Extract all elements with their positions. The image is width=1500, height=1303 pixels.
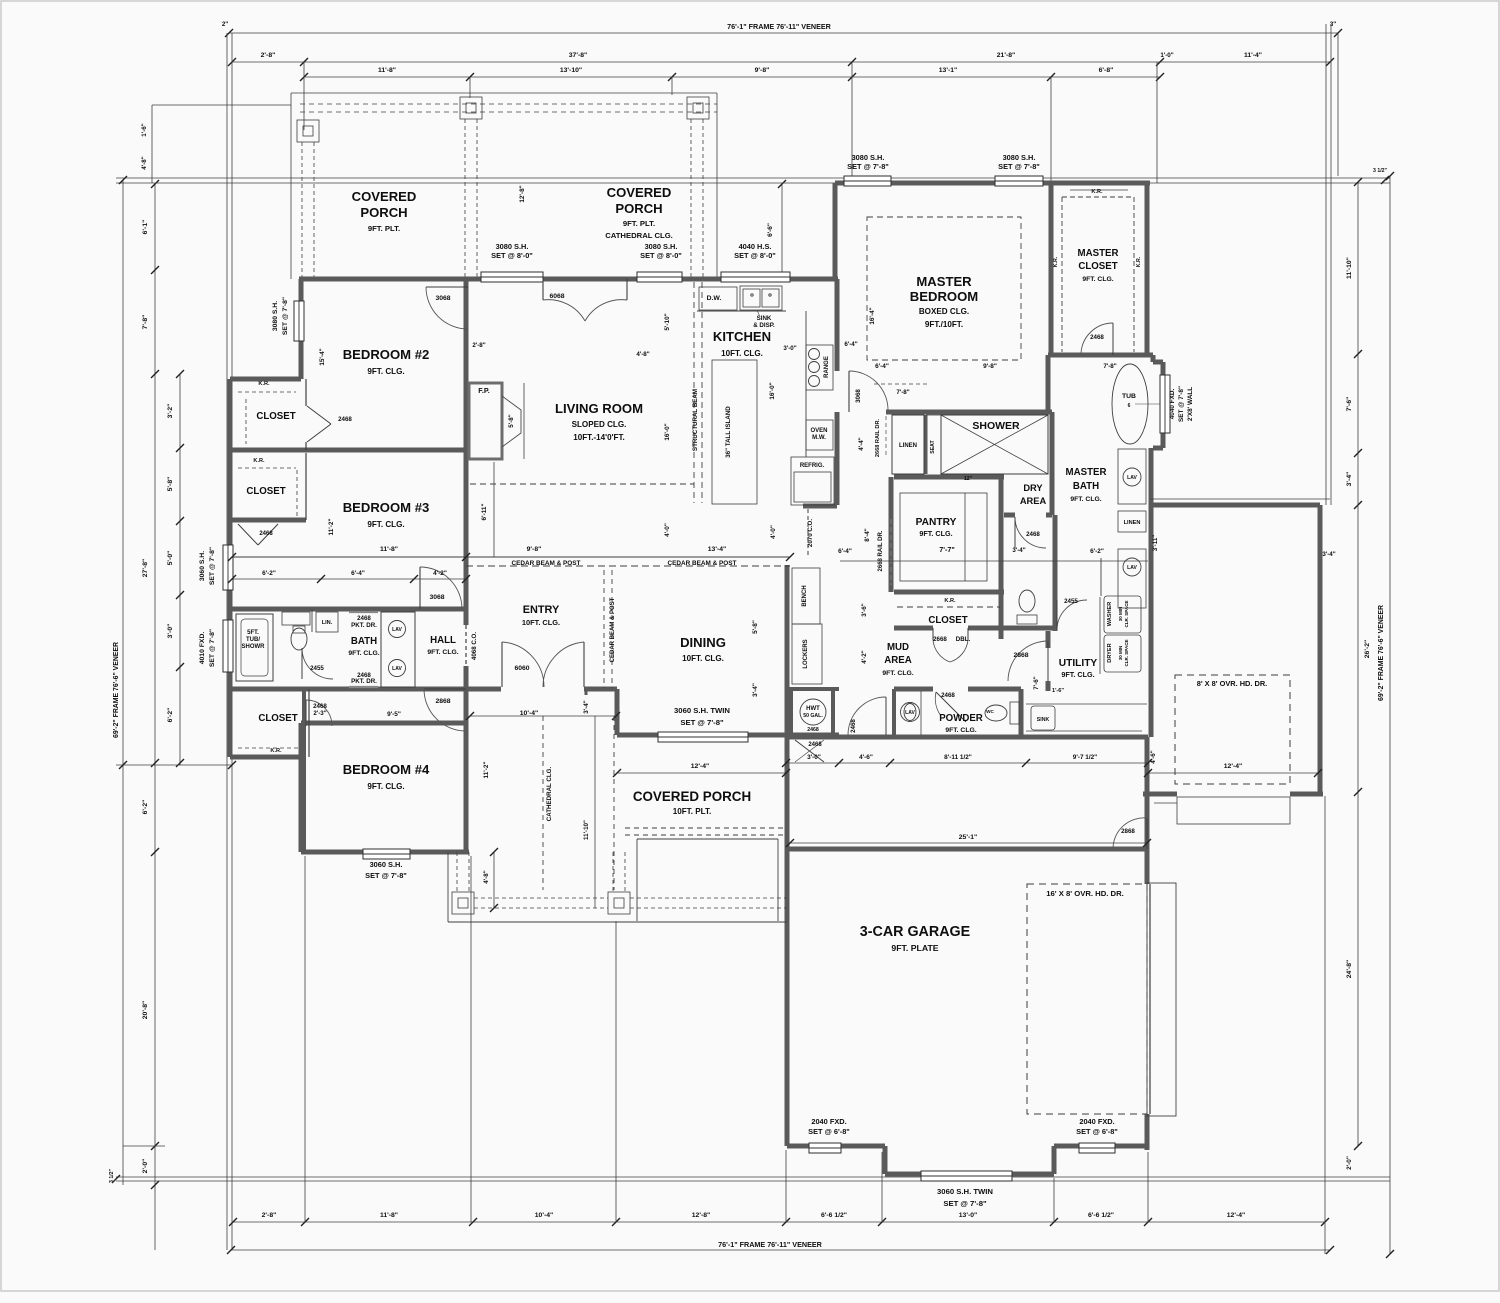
svg-text:ENTRY: ENTRY <box>523 604 560 616</box>
window 3080 SH bedroom2 porch <box>481 272 543 282</box>
svg-text:2'X8' WALL: 2'X8' WALL <box>1187 387 1194 421</box>
closet1 rod dashed <box>238 391 296 393</box>
svg-text:3'-11": 3'-11" <box>1152 535 1159 552</box>
svg-text:DBL.: DBL. <box>956 636 971 643</box>
svg-text:DRYER: DRYER <box>1107 643 1113 662</box>
svg-text:10FT. CLG.: 10FT. CLG. <box>682 654 724 663</box>
svg-text:REFRIG.: REFRIG. <box>800 463 825 469</box>
svg-text:CEDAR BEAM & POST: CEDAR BEAM & POST <box>610 597 616 662</box>
svg-text:MASTER: MASTER <box>916 274 972 289</box>
closet2 rod dashed <box>238 467 296 469</box>
wall: hwt south <box>786 733 839 738</box>
svg-text:2468: 2468 <box>259 531 273 537</box>
svg-text:BOXED CLG.: BOXED CLG. <box>919 307 969 316</box>
svg-text:LAV: LAV <box>1127 565 1137 571</box>
svg-text:5FT.: 5FT. <box>247 630 259 636</box>
door 6060 entry french doors <box>501 642 503 687</box>
linen closet master <box>1118 511 1146 532</box>
ext x1148 bottom <box>1147 1152 1149 1222</box>
svg-text:F.P.: F.P. <box>478 386 489 395</box>
window 2040 FXD garage left <box>809 1143 841 1153</box>
patio roof line <box>1150 498 1330 500</box>
svg-text:LAV: LAV <box>392 627 402 633</box>
svg-text:11'-2": 11'-2" <box>328 519 335 536</box>
mud closet double doors 2668 <box>932 628 934 640</box>
wall: bath/hall south <box>230 687 466 692</box>
bath tub 5ft <box>236 614 273 681</box>
svg-text:SET @ 6'-8": SET @ 6'-8" <box>808 1127 850 1136</box>
svg-text:3'-4": 3'-4" <box>1346 472 1353 487</box>
exterior wall: garage south right <box>1054 1144 1147 1149</box>
svg-text:K.R.: K.R. <box>944 598 956 604</box>
line: wd nook west <box>1100 558 1102 596</box>
svg-text:DRY: DRY <box>1023 483 1043 493</box>
svg-text:6'-6 1/2": 6'-6 1/2" <box>1088 1212 1114 1219</box>
porch beam dashed s1 <box>474 897 608 899</box>
master lav 2 <box>1118 549 1146 608</box>
svg-text:6: 6 <box>1128 403 1131 409</box>
garage door panel <box>1147 883 1176 1116</box>
exterior wall: closet3 west <box>228 689 233 757</box>
svg-text:CLR. SPACE: CLR. SPACE <box>1124 640 1129 667</box>
ext line x304 <box>303 62 305 130</box>
svg-text:6'-11": 6'-11" <box>481 504 488 521</box>
svg-text:SLOPED CLG.: SLOPED CLG. <box>572 420 627 429</box>
left dim line 2 <box>154 183 156 1250</box>
svg-text:3080 S.H.: 3080 S.H. <box>496 242 529 251</box>
wall: closet2 south <box>230 518 306 523</box>
wall: pantry south <box>894 590 1004 595</box>
svg-text:4068 C.O.: 4068 C.O. <box>471 632 478 660</box>
wall: utility west stub b <box>1046 681 1051 691</box>
svg-text:11'-8": 11'-8" <box>378 67 396 74</box>
svg-text:5'-10": 5'-10" <box>664 313 671 330</box>
dim line y773 <box>617 772 786 774</box>
svg-text:4010 FXD.: 4010 FXD. <box>199 632 206 665</box>
door mud south exterior <box>885 697 887 735</box>
svg-text:6'-2": 6'-2" <box>167 708 174 723</box>
bottom dim line <box>233 1221 1325 1223</box>
washer <box>1104 596 1141 633</box>
svg-text:20'-8": 20'-8" <box>142 1001 149 1019</box>
svg-text:3060 S.H.: 3060 S.H. <box>370 860 403 869</box>
svg-text:3080 S.H.: 3080 S.H. <box>1003 153 1036 162</box>
svg-text:2455: 2455 <box>310 665 324 672</box>
svg-text:6060: 6060 <box>514 665 529 672</box>
svg-text:AREA: AREA <box>1020 496 1047 506</box>
svg-text:SEAT: SEAT <box>930 439 936 453</box>
ext x616 bottom <box>615 921 617 1222</box>
porch beam dashed s4 <box>630 907 787 909</box>
svg-text:CLOSET: CLOSET <box>1078 261 1117 272</box>
porch post 1 <box>297 120 319 142</box>
svg-text:9FT. PLATE: 9FT. PLATE <box>891 943 938 953</box>
door utility to wc 2455 <box>1057 600 1087 630</box>
svg-text:5'-8": 5'-8" <box>752 620 759 634</box>
svg-text:BEDROOM: BEDROOM <box>910 289 978 304</box>
svg-text:10FT. CLG.: 10FT. CLG. <box>721 349 763 358</box>
svg-text:LAV: LAV <box>1127 475 1137 481</box>
lockers <box>792 624 822 684</box>
svg-text:SET @ 6'-8": SET @ 6'-8" <box>1076 1127 1118 1136</box>
sloped ceiling dashed <box>470 483 694 485</box>
window 4010 FXD bath west <box>223 620 233 672</box>
range counter edge <box>805 311 807 457</box>
svg-text:SET @ 7'-8": SET @ 7'-8" <box>680 718 724 727</box>
svg-text:6'-4": 6'-4" <box>351 570 365 577</box>
svg-text:2468: 2468 <box>807 727 819 733</box>
svg-text:9FT. CLG.: 9FT. CLG. <box>367 782 404 791</box>
svg-text:1'-6": 1'-6" <box>1052 688 1064 694</box>
svg-text:26'-2": 26'-2" <box>1364 640 1371 658</box>
horizontal veneer line y178 <box>116 177 1390 179</box>
wall: master bath west <box>1050 412 1055 515</box>
door mud to utility 2868 <box>1008 641 1048 681</box>
post3 drop dashed a <box>690 119 692 277</box>
bottom veneer line b <box>116 1180 1390 1182</box>
dim line 4-8 <box>493 852 495 908</box>
svg-text:2868: 2868 <box>1013 652 1028 659</box>
master boxed ceiling dashed <box>867 217 1021 360</box>
ext x471 bottom <box>470 856 472 1222</box>
svg-text:9FT. CLG.: 9FT. CLG. <box>945 727 976 734</box>
svg-text:2455: 2455 <box>1064 598 1078 605</box>
wd counter edge <box>1099 597 1101 674</box>
svg-text:6'-1": 6'-1" <box>142 220 149 235</box>
svg-text:SET @ 7'-8": SET @ 7'-8" <box>209 547 216 585</box>
svg-text:SET @ 8'-0": SET @ 8'-0" <box>491 251 533 260</box>
sink leader <box>757 310 760 317</box>
exterior wall: garage step left <box>883 1146 888 1174</box>
post1 drop dashed b <box>313 142 315 277</box>
door 3068 bedroom2 <box>426 286 468 288</box>
shower <box>941 415 1048 474</box>
wall: rear patio north <box>1153 503 1320 508</box>
svg-text:9FT. PLT.: 9FT. PLT. <box>368 224 400 233</box>
exterior wall: west closets/bath <box>228 379 233 689</box>
bath lav counter <box>381 612 415 687</box>
svg-text:6068: 6068 <box>549 293 564 300</box>
svg-text:76'-1" FRAME 76'-11" VENEER: 76'-1" FRAME 76'-11" VENEER <box>727 22 832 31</box>
kitchen sink <box>740 286 782 310</box>
porch roof overhang dashed <box>625 827 786 829</box>
svg-text:2468: 2468 <box>1090 334 1104 341</box>
svg-text:BENCH: BENCH <box>802 585 808 606</box>
svg-text:CATHEDRAL CLG.: CATHEDRAL CLG. <box>546 767 553 822</box>
svg-text:9FT. CLG.: 9FT. CLG. <box>348 650 379 657</box>
svg-text:6'-4": 6'-4" <box>875 363 889 370</box>
oven microwave <box>806 420 833 450</box>
svg-text:SHOWER: SHOWER <box>972 420 1020 432</box>
wall: closet3 east / bedroom4 <box>302 689 306 852</box>
right veneer ext b <box>1330 24 1332 505</box>
svg-text:16'-0": 16'-0" <box>664 423 671 440</box>
svg-text:BEDROOM #3: BEDROOM #3 <box>343 500 430 515</box>
wall: master bedroom south <box>886 410 1052 415</box>
svg-text:16' X 8' OVR. HD. DR.: 16' X 8' OVR. HD. DR. <box>1046 889 1124 898</box>
svg-text:COVERED: COVERED <box>352 189 417 204</box>
svg-text:2'-8": 2'-8" <box>472 342 485 349</box>
window 4040 HS kitchen <box>721 272 790 282</box>
svg-text:PKT. DR.: PKT. DR. <box>351 622 377 629</box>
svg-text:50 GAL.: 50 GAL. <box>803 713 823 719</box>
wall: hwt closet west <box>789 689 793 735</box>
window 3080 SH bedroom2 west <box>294 301 304 341</box>
closet3 walls <box>308 689 310 757</box>
wall: mud closet south a <box>894 626 933 631</box>
svg-text:16'-0": 16'-0" <box>769 382 776 399</box>
dishwasher D.W. <box>699 287 737 310</box>
svg-text:9FT. CLG.: 9FT. CLG. <box>367 520 404 529</box>
dim line row3 left <box>304 76 852 78</box>
ext x1325 bottom <box>1324 796 1326 1254</box>
svg-text:7'-6": 7'-6" <box>1033 676 1040 689</box>
ext line x1338 <box>1337 33 1339 176</box>
svg-text:SINK: SINK <box>1037 717 1050 723</box>
svg-text:SHOWR: SHOWR <box>242 644 266 650</box>
svg-text:2868: 2868 <box>1121 828 1135 835</box>
svg-text:K.R.: K.R. <box>270 748 282 754</box>
svg-text:11'-10": 11'-10" <box>583 820 590 840</box>
svg-text:SET @ 7'-8": SET @ 7'-8" <box>847 162 889 171</box>
left small dim y1146 <box>123 1145 165 1147</box>
svg-text:2668 RAIL DR.: 2668 RAIL DR. <box>875 418 881 457</box>
svg-text:1'-6": 1'-6" <box>141 123 148 136</box>
svg-text:25'-1": 25'-1" <box>959 834 977 841</box>
wall: bedroom3 east <box>464 450 469 609</box>
svg-text:13'-0": 13'-0" <box>959 1212 977 1219</box>
svg-text:3'-0": 3'-0" <box>807 754 821 761</box>
wall: dining west <box>615 689 620 735</box>
closet1 inner partition <box>305 379 307 406</box>
svg-text:11'-10": 11'-10" <box>1346 257 1353 279</box>
wc toilet master <box>1019 590 1035 612</box>
svg-text:7'-8": 7'-8" <box>1103 363 1116 370</box>
exterior wall: bedroom4 south <box>301 850 469 855</box>
wall: closet1 north <box>230 377 301 382</box>
svg-text:2": 2" <box>222 21 228 28</box>
svg-text:4040 H.S.: 4040 H.S. <box>739 242 772 251</box>
door kitchen to master vestibule <box>848 371 850 412</box>
right dim line lower <box>1357 505 1359 1146</box>
door 2455 bath inner <box>302 648 333 679</box>
wall: entry south east segment <box>584 687 617 692</box>
bench <box>792 568 820 624</box>
porch roof top edge <box>291 92 717 94</box>
svg-text:10FT. PLT.: 10FT. PLT. <box>673 807 712 816</box>
svg-text:9'-8": 9'-8" <box>755 67 770 74</box>
svg-text:3-CAR GARAGE: 3-CAR GARAGE <box>860 924 970 940</box>
wall: patio south west segment <box>1143 792 1177 797</box>
wall: bedroom2 east <box>464 279 469 450</box>
window 3060 SH bedroom3 west <box>223 545 233 590</box>
exterior wall: north main <box>299 277 838 282</box>
svg-text:MASTER: MASTER <box>1078 248 1119 259</box>
svg-text:STRUCTURAL BEAM: STRUCTURAL BEAM <box>692 389 699 451</box>
wall: powder north a <box>894 687 933 692</box>
svg-text:3060 S.H. TWIN: 3060 S.H. TWIN <box>937 1187 993 1196</box>
svg-text:SET @ 7'-8": SET @ 7'-8" <box>998 162 1040 171</box>
svg-text:POWDER: POWDER <box>939 713 983 724</box>
cased opening 4068 hall <box>465 625 467 666</box>
svg-text:3'-4": 3'-4" <box>583 700 590 713</box>
svg-text:69'-2" FRAME 76'-6" VENEER: 69'-2" FRAME 76'-6" VENEER <box>1378 605 1385 701</box>
exterior wall: dining south <box>617 733 786 738</box>
shower seat <box>926 414 941 416</box>
wall: powder east <box>1019 689 1024 737</box>
bath vanity counter <box>311 609 313 632</box>
svg-text:8'-4": 8'-4" <box>864 528 871 541</box>
svg-text:3060 S.H. TWIN: 3060 S.H. TWIN <box>674 706 730 715</box>
svg-text:CLR. SPACE: CLR. SPACE <box>1124 601 1129 628</box>
svg-text:76'-1" FRAME 76'-11" VENEER: 76'-1" FRAME 76'-11" VENEER <box>718 1240 823 1249</box>
svg-text:BATH: BATH <box>351 636 377 647</box>
wall: master closet west <box>1049 183 1054 355</box>
wall: kitchen east a <box>835 279 840 371</box>
svg-text:LOCKERS: LOCKERS <box>803 639 809 668</box>
horizontal frame line y183 <box>116 182 1390 184</box>
bath linen <box>316 612 338 632</box>
dim line y763 <box>786 762 1148 764</box>
door 3068 bedroom3 <box>419 567 421 609</box>
svg-text:2468: 2468 <box>850 719 857 733</box>
svg-text:4'-0": 4'-0" <box>770 525 777 539</box>
svg-text:CLOSET: CLOSET <box>928 615 967 626</box>
ext line x470 <box>469 77 471 98</box>
window 3060 SH bedroom4 <box>363 849 410 859</box>
window 3060 SH twin dining <box>658 732 748 742</box>
svg-text:3068: 3068 <box>435 295 450 302</box>
exterior wall: bedroom4 east <box>464 723 469 852</box>
svg-text:1'-0": 1'-0" <box>1160 52 1173 59</box>
svg-text:7'-7": 7'-7" <box>939 545 955 554</box>
svg-text:2040 FXD.: 2040 FXD. <box>1079 1117 1114 1126</box>
south porch slab outline <box>447 852 449 922</box>
south porch post 1 <box>452 892 474 914</box>
svg-text:5'-8": 5'-8" <box>167 477 174 492</box>
svg-text:27'-8": 27'-8" <box>142 559 149 577</box>
svg-text:OVEN: OVEN <box>810 428 827 434</box>
rear patio door slab <box>1177 797 1290 824</box>
fireplace hearth line <box>493 462 495 557</box>
svg-text:69'-2" FRAME 76'-6" VENEER: 69'-2" FRAME 76'-6" VENEER <box>113 642 120 738</box>
exterior wall: rear patio east <box>1318 505 1323 794</box>
svg-text:6'-6": 6'-6" <box>767 223 774 237</box>
ext line x852 <box>851 62 853 183</box>
ext x786 bottom <box>785 1150 787 1222</box>
utility sink <box>1026 703 1147 705</box>
svg-text:2468: 2468 <box>1026 531 1040 538</box>
svg-text:9'-8": 9'-8" <box>983 363 997 370</box>
wall: dry area south a <box>1004 513 1015 518</box>
post2 drop dashed b <box>476 119 478 277</box>
pantry rail door dashed <box>890 519 892 585</box>
window 3080 SH living <box>637 272 682 282</box>
svg-text:UTILITY: UTILITY <box>1059 658 1098 669</box>
closet1 bifold doors <box>307 406 331 424</box>
svg-text:CATHEDRAL CLG.: CATHEDRAL CLG. <box>605 231 673 240</box>
window 4040 FXD tub bay <box>1160 375 1170 433</box>
svg-text:BEDROOM #2: BEDROOM #2 <box>343 347 430 362</box>
left veneer ext line a <box>226 33 228 1250</box>
wall: entry south west segment <box>459 687 501 692</box>
svg-text:12'-4": 12'-4" <box>1227 1212 1245 1219</box>
window 2040 FXD garage right <box>1079 1143 1115 1153</box>
svg-text:WASHER: WASHER <box>1107 602 1113 627</box>
svg-text:CEDAR BEAM & POST: CEDAR BEAM & POST <box>512 560 581 567</box>
wall: hall east a <box>464 609 469 625</box>
svg-text:K.R.: K.R. <box>1053 256 1059 267</box>
svg-text:3'-4": 3'-4" <box>752 683 759 697</box>
powder lav <box>901 703 920 722</box>
wall: hwt closet north <box>786 687 839 691</box>
small dim line top left <box>152 104 291 106</box>
svg-text:3080 S.H.: 3080 S.H. <box>645 242 678 251</box>
svg-text:9FT. CLG.: 9FT. CLG. <box>882 670 913 677</box>
wall: powder west <box>892 689 896 737</box>
svg-text:12'-4": 12'-4" <box>691 763 709 770</box>
dim line y579 <box>232 578 466 580</box>
wall: hwt closet east <box>831 689 835 735</box>
fireplace F.P. <box>469 383 502 459</box>
svg-text:COVERED: COVERED <box>607 185 672 200</box>
closet2 inner partition <box>305 453 307 520</box>
svg-text:3 1/2": 3 1/2" <box>1373 168 1388 174</box>
powder toilet <box>985 705 1007 721</box>
exterior wall: west garage/mud <box>785 565 790 1146</box>
svg-text:15'-4": 15'-4" <box>319 348 326 365</box>
closet2 rod v <box>296 470 298 516</box>
wall: garage north <box>787 847 1148 852</box>
refrigerator <box>791 457 834 505</box>
svg-text:CLOSET: CLOSET <box>258 713 297 724</box>
svg-text:TUB: TUB <box>1122 393 1136 400</box>
ext line x1051 <box>1050 77 1052 183</box>
dim line row2 <box>232 61 1330 63</box>
svg-text:SET @ 8'-0": SET @ 8'-0" <box>734 251 776 260</box>
door hwt closet diagonal <box>795 740 824 762</box>
svg-text:LAV: LAV <box>905 710 915 716</box>
svg-text:D.W.: D.W. <box>707 295 722 302</box>
garage overhead door 16x8 dashed <box>1027 884 1147 1114</box>
svg-text:3060 S.H.: 3060 S.H. <box>199 551 206 581</box>
svg-text:BATH: BATH <box>1073 481 1099 492</box>
svg-text:6'-8": 6'-8" <box>1099 67 1114 74</box>
svg-text:2868: 2868 <box>435 698 450 705</box>
svg-text:SET @ 7'-8": SET @ 7'-8" <box>282 297 289 335</box>
svg-text:3'-2": 3'-2" <box>167 404 174 419</box>
svg-text:4'-8": 4'-8" <box>636 351 649 358</box>
window 3060 SH twin garage <box>921 1171 1012 1181</box>
svg-text:3'-4": 3'-4" <box>1322 551 1335 558</box>
svg-text:2668 RAIL DR.: 2668 RAIL DR. <box>878 530 884 571</box>
svg-text:7'-8": 7'-8" <box>142 315 149 330</box>
svg-text:4'-8": 4'-8" <box>483 870 490 883</box>
svg-text:30 MIN: 30 MIN <box>1118 607 1123 622</box>
wall: kitchen east b <box>835 412 840 505</box>
exterior wall: garage east lower <box>1145 1114 1150 1150</box>
svg-text:2070 C.O.: 2070 C.O. <box>807 519 814 547</box>
wall: master closet west stub <box>1046 355 1051 412</box>
svg-text:LINEN: LINEN <box>1124 520 1141 526</box>
cedar post dashed entry <box>603 570 605 688</box>
svg-text:4'-6": 4'-6" <box>859 754 873 761</box>
svg-text:PORCH: PORCH <box>360 205 407 220</box>
svg-text:K.R.: K.R. <box>1091 189 1103 195</box>
porch beam dashed s2 <box>474 907 608 909</box>
exterior wall: garage step right <box>1052 1146 1057 1174</box>
svg-text:11'-2": 11'-2" <box>483 762 490 779</box>
